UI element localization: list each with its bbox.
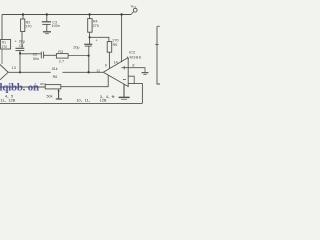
svg-text:LM388: LM388 bbox=[127, 55, 142, 60]
svg-text:2.7: 2.7 bbox=[59, 59, 64, 63]
svg-text:RP2: RP2 bbox=[40, 82, 46, 86]
svg-text:R5: R5 bbox=[113, 43, 118, 47]
svg-text:R1: R1 bbox=[2, 41, 6, 45]
svg-text:R3: R3 bbox=[58, 50, 63, 54]
svg-text:C1: C1 bbox=[19, 44, 24, 48]
svg-text:Vcc: Vcc bbox=[131, 4, 137, 9]
svg-text:9: 9 bbox=[105, 64, 107, 68]
svg-text:14: 14 bbox=[114, 61, 118, 65]
svg-text:51k: 51k bbox=[52, 67, 58, 71]
svg-text:R6: R6 bbox=[53, 75, 58, 79]
svg-text:11: 11 bbox=[96, 69, 100, 73]
svg-text:270: 270 bbox=[93, 24, 99, 28]
svg-text:10、11、: 10、11、 bbox=[76, 97, 92, 102]
svg-text:20μ: 20μ bbox=[73, 45, 79, 49]
svg-text:270: 270 bbox=[25, 25, 31, 29]
svg-text:50k: 50k bbox=[47, 94, 53, 98]
svg-text:+: + bbox=[15, 40, 17, 44]
svg-text:13: 13 bbox=[12, 66, 16, 70]
svg-text:+: + bbox=[96, 38, 98, 42]
svg-text:100n: 100n bbox=[52, 24, 60, 28]
svg-text:20μ: 20μ bbox=[19, 40, 25, 44]
svg-text:—: — bbox=[111, 94, 115, 99]
svg-text:270: 270 bbox=[2, 45, 8, 49]
svg-text:270: 270 bbox=[112, 38, 118, 42]
svg-text:8: 8 bbox=[132, 63, 134, 67]
svg-text:11、12B: 11、12B bbox=[0, 97, 15, 102]
svg-text:50n: 50n bbox=[33, 57, 39, 61]
